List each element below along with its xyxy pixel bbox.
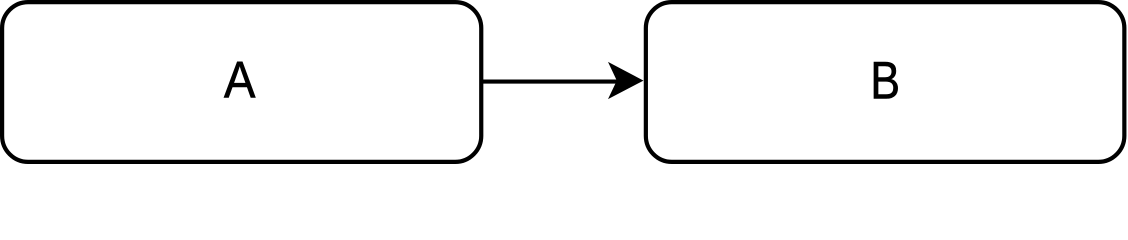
svg-text:B: B <box>870 52 900 110</box>
arrowhead <box>608 62 644 99</box>
node A <box>2 2 481 162</box>
svg-text:A: A <box>224 51 256 110</box>
node B <box>646 2 1125 162</box>
wire <box>481 80 619 84</box>
